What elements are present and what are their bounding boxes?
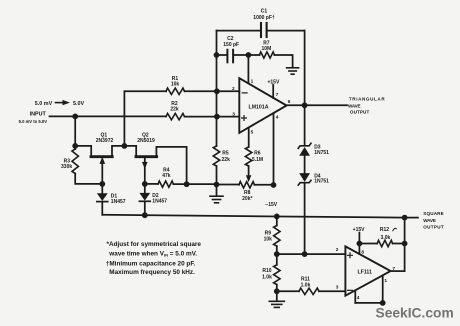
svg-text:4: 4 — [357, 295, 360, 301]
svg-text:1N751: 1N751 — [314, 179, 329, 185]
svg-text:2: 2 — [336, 247, 339, 253]
svg-text:1N751: 1N751 — [314, 150, 329, 156]
svg-text:Maximum frequency 50 kHz.: Maximum frequency 50 kHz. — [109, 269, 195, 276]
svg-text:1: 1 — [384, 278, 387, 284]
svg-text:+15V: +15V — [353, 227, 365, 233]
svg-text:20k*: 20k* — [242, 196, 252, 202]
svg-text:LM101A: LM101A — [249, 104, 269, 110]
svg-text:wave time when VIN = 5.0 mV.: wave time when VIN = 5.0 mV. — [108, 251, 197, 258]
svg-text:+15V: +15V — [267, 80, 279, 86]
svg-text:C1: C1 — [261, 8, 268, 14]
svg-text:330k: 330k — [61, 164, 72, 170]
svg-text:10M: 10M — [262, 46, 272, 52]
svg-text:R9: R9 — [265, 231, 272, 237]
svg-text:7: 7 — [276, 92, 279, 98]
svg-text:WAVE: WAVE — [423, 218, 436, 223]
svg-text:1N457: 1N457 — [152, 198, 167, 204]
svg-text:22k: 22k — [170, 107, 179, 113]
svg-text:7: 7 — [392, 266, 395, 272]
svg-text:5.0 mV: 5.0 mV — [35, 101, 53, 107]
svg-text:*Adjust for symmetrical square: *Adjust for symmetrical square — [107, 241, 202, 248]
svg-text:22k: 22k — [222, 157, 231, 163]
svg-text:6: 6 — [288, 99, 291, 105]
svg-text:LF111: LF111 — [357, 270, 372, 276]
svg-text:OUTPUT: OUTPUT — [423, 224, 444, 229]
svg-text:1000 pF†: 1000 pF† — [253, 15, 275, 21]
svg-text:R8: R8 — [244, 190, 251, 196]
svg-text:WAVE: WAVE — [348, 103, 361, 108]
svg-text:10k: 10k — [171, 82, 180, 88]
svg-text:R10: R10 — [262, 268, 271, 274]
svg-text:5.0V: 5.0V — [73, 101, 84, 107]
svg-text:−15V: −15V — [265, 202, 277, 208]
svg-text:5: 5 — [251, 129, 254, 135]
svg-text:3: 3 — [336, 285, 339, 291]
svg-text:5.1M: 5.1M — [252, 157, 263, 163]
svg-text:8: 8 — [361, 250, 364, 256]
svg-text:2N5019: 2N5019 — [137, 138, 155, 144]
svg-text:3: 3 — [232, 111, 235, 117]
svg-text:TRIANGULAR: TRIANGULAR — [349, 97, 385, 102]
svg-text:†Minimum capacitance 20 pF.: †Minimum capacitance 20 pF. — [106, 260, 196, 267]
svg-text:R5: R5 — [222, 151, 229, 157]
svg-text:5.0 mV to 5.0V: 5.0 mV to 5.0V — [19, 119, 48, 124]
svg-text:SQUARE: SQUARE — [423, 211, 444, 216]
svg-text:150 pF: 150 pF — [223, 42, 239, 48]
svg-text:1N457: 1N457 — [111, 199, 126, 205]
svg-text:OUTPUT: OUTPUT — [350, 109, 370, 114]
svg-text:1.0k: 1.0k — [301, 282, 311, 288]
svg-text:INPUT: INPUT — [30, 112, 47, 118]
svg-text:2N3972: 2N3972 — [96, 138, 114, 144]
svg-text:47k: 47k — [162, 173, 171, 179]
svg-text:R6: R6 — [254, 151, 261, 157]
svg-text:4: 4 — [276, 115, 279, 121]
svg-text:10k: 10k — [264, 237, 273, 243]
svg-text:3.0k: 3.0k — [381, 235, 391, 241]
svg-text:R12: R12 — [380, 227, 389, 233]
svg-text:1: 1 — [251, 78, 254, 84]
svg-text:2: 2 — [232, 86, 235, 92]
svg-text:SeekIC.com: SeekIC.com — [376, 306, 454, 321]
svg-text:1.0k: 1.0k — [262, 274, 272, 280]
